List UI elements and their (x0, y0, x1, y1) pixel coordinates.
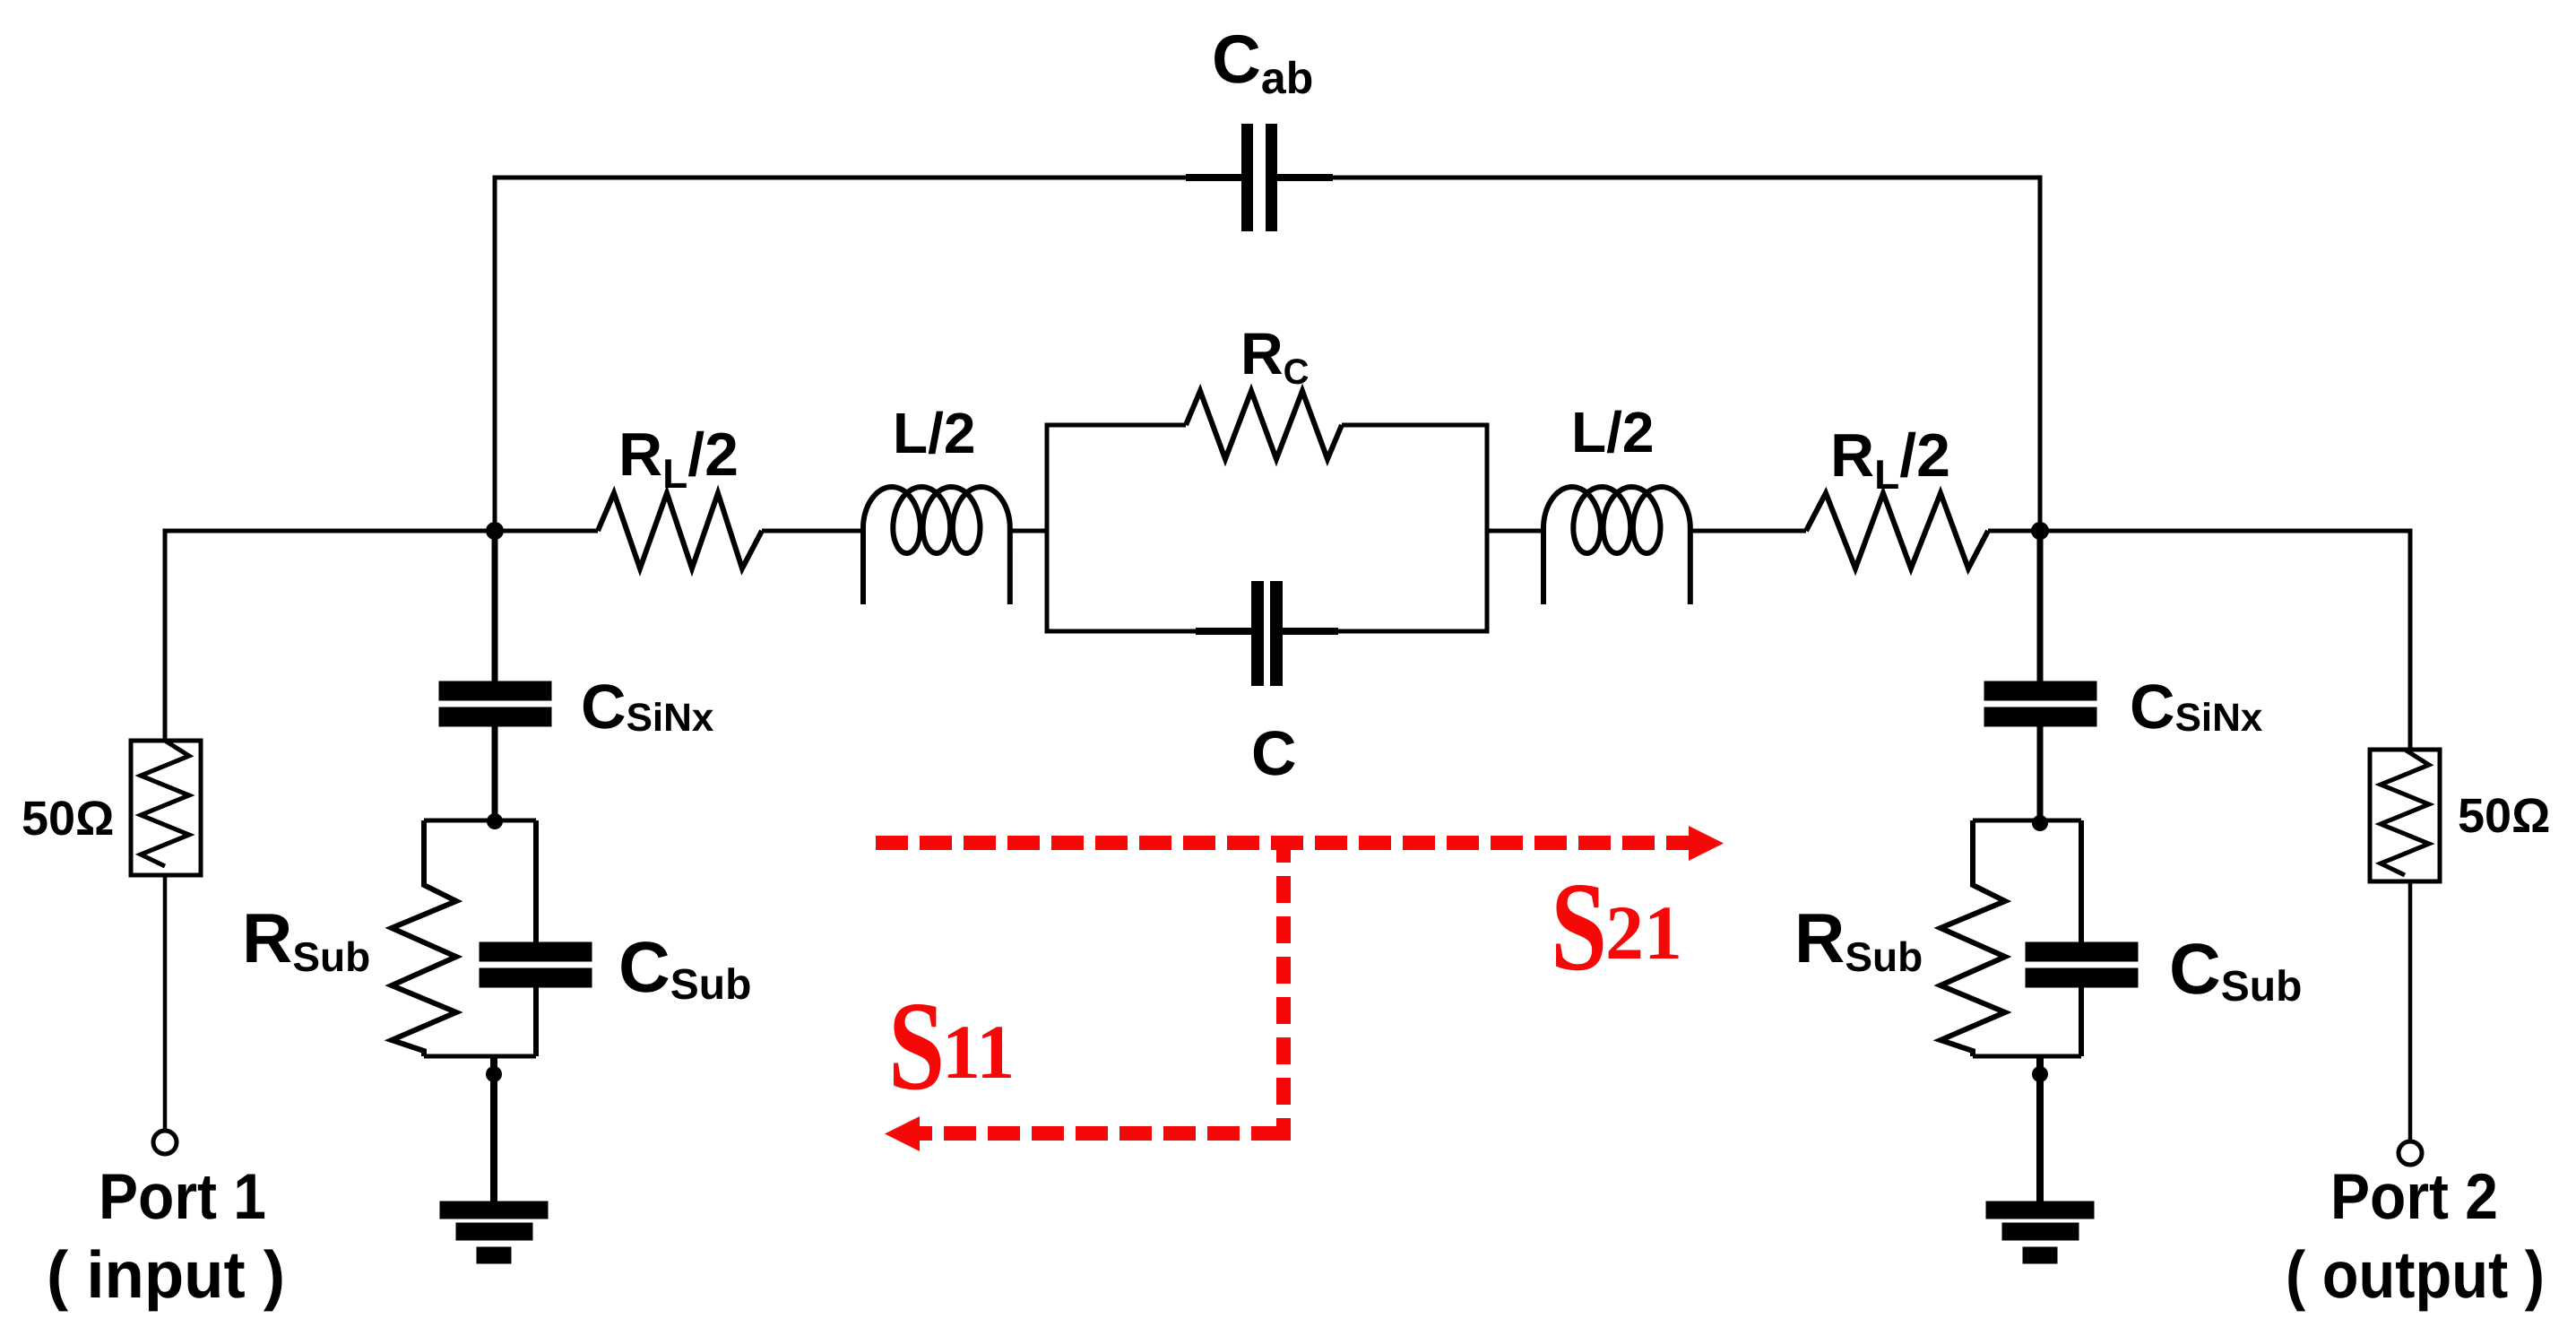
svg-text:L/2: L/2 (893, 401, 975, 465)
inductor L/2 right (1543, 487, 1690, 604)
node: left sub-network bottom junction dot (486, 1066, 502, 1082)
wire: CSiNx right to Rsub/Csub box (2037, 724, 2044, 820)
resistor RL/2 left (598, 493, 762, 568)
box: Rsub//Csub left top edge (424, 819, 536, 823)
svg-text:Port 1: Port 1 (99, 1161, 266, 1233)
capacitor Csub left (481, 944, 590, 959)
label S11 (888, 975, 945, 1116)
resistor 50ohm right box (2370, 750, 2440, 881)
capacitor C (1251, 581, 1283, 686)
box: Rsub//Csub right bottom edge (1973, 1054, 2081, 1059)
capacitor Csub right (2027, 944, 2136, 959)
svg-text:S: S (888, 975, 945, 1116)
node: Port1 terminal circle (153, 1131, 177, 1154)
svg-text:21: 21 (1605, 889, 1682, 976)
wire: right box to ground (2036, 1056, 2044, 1205)
svg-text:( input ): ( input ) (47, 1237, 285, 1312)
node A junction dot (486, 522, 504, 540)
resistor 50ohm left box (131, 741, 201, 875)
node: right sub-network top junction dot (2032, 815, 2048, 831)
wire: CSiNx left to Rsub/Csub box (492, 724, 498, 820)
wire: top net from Cab right plate to node B (1277, 178, 2040, 531)
wire: main row, Port1 branch to node A (165, 531, 598, 741)
svg-text:Port 2: Port 2 (2330, 1161, 2498, 1233)
box: RC parallel C branch outline (1047, 425, 1487, 631)
svg-text:50Ω: 50Ω (2458, 789, 2550, 843)
svg-text:L/2: L/2 (1571, 400, 1654, 464)
wire: node B down to CSiNx right (2037, 531, 2044, 683)
capacitor CSiNx right (1986, 683, 2095, 698)
wire: C thick lead stubs (1196, 628, 1338, 635)
wire: Csub right branch (2079, 820, 2084, 1056)
inductor L/2 left (863, 487, 1010, 604)
node: left sub-network top junction dot (487, 813, 503, 829)
wire: 50ohm right to Port2 terminal (2408, 881, 2413, 1141)
wire: Csub left branch (533, 820, 539, 1056)
wire: L/2 left to RC//C box (1011, 529, 1047, 534)
wire: S21 dashed arrow line (876, 836, 1689, 850)
node B junction dot (2031, 522, 2049, 540)
box: Rsub//Csub left bottom edge (424, 1054, 536, 1059)
box: Rsub//Csub right top edge (1973, 819, 2081, 823)
svg-text:S: S (1551, 855, 1607, 997)
svg-text:11: 11 (942, 1009, 1015, 1095)
wire: box to L/2 right (1487, 529, 1543, 534)
wire: top net from node A to Cab left plate (495, 178, 1241, 531)
wire: Cab thick lead stubs (1186, 174, 1333, 181)
svg-text:( output ): ( output ) (2286, 1237, 2545, 1312)
node: Port2 terminal circle (2399, 1141, 2422, 1165)
wire: left box to ground (490, 1056, 497, 1205)
wire: RL/2 left to L/2 left (762, 529, 863, 534)
svg-text:C: C (1251, 718, 1297, 788)
wire: 50ohm left to Port1 terminal (163, 875, 168, 1131)
wire: L/2 right to RL/2 right (1691, 529, 1806, 534)
ground left (442, 1203, 546, 1217)
svg-text:50Ω: 50Ω (22, 792, 114, 846)
wire: RL/2 right to node B to Port2 branch corner (1988, 531, 2410, 750)
node: right sub-network bottom junction dot (2032, 1066, 2048, 1082)
resistor RL/2 right (1806, 493, 1988, 568)
capacitor CSiNx left (441, 683, 549, 698)
resistor Rsub right (1941, 820, 2005, 1056)
label S21 (1551, 855, 1607, 997)
capacitor Cab (1241, 124, 1277, 231)
resistor RC (1186, 391, 1342, 459)
wire: S11 dashed vertical segment (1276, 836, 1291, 1141)
wire: S11 dashed arrow line (920, 1126, 1284, 1141)
ground right (1988, 1203, 2092, 1217)
resistor Rsub left (392, 820, 456, 1056)
wire: node A down to CSiNx left (492, 531, 498, 683)
